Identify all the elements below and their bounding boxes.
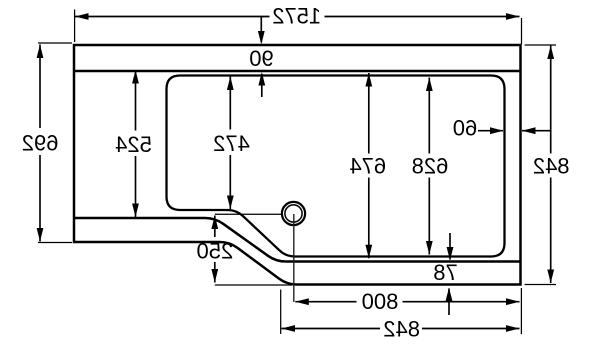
svg-text:692: 692: [22, 131, 59, 156]
arrowhead 524 top: [132, 70, 139, 84]
dimension lines: [40, 17, 551, 329]
arrowhead 628 bottom: [426, 241, 433, 255]
arrowhead 800 left: [295, 298, 309, 305]
svg-text:472: 472: [213, 131, 250, 156]
dim line 692: [39, 45, 41, 242]
arrowhead 628 top: [426, 78, 433, 92]
ext line 842 right top: [525, 44, 556, 46]
dim line 78 bottom leader: [448, 289, 450, 316]
ext line 692 bottom: [38, 242, 72, 244]
shower tray outer outline: [74, 45, 521, 285]
svg-text:674: 674: [349, 154, 386, 179]
dim line 842 bottom: [282, 328, 520, 330]
dim line 842 right: [550, 46, 552, 284]
svg-text:628: 628: [412, 154, 449, 179]
ext line right for 800 and 842 bottom: [520, 288, 522, 334]
arrowhead 60 pointing right: [490, 127, 504, 134]
arrowhead 78 up: [446, 288, 453, 302]
arrowhead 692 top: [37, 45, 44, 59]
dim line 78 top leader: [449, 233, 451, 260]
arrowhead 90 down: [258, 31, 265, 45]
ext line 250 top to drain: [215, 213, 283, 215]
dim line 90 bottom leader: [261, 74, 263, 97]
svg-text:250: 250: [197, 239, 234, 264]
top rim inner line: [74, 70, 521, 73]
svg-text:800: 800: [362, 289, 399, 314]
dim line 800: [295, 301, 519, 303]
arrowhead 1572 left: [75, 13, 89, 20]
arrowhead 78 down: [447, 247, 454, 261]
ext line 1572 left: [74, 10, 76, 43]
svg-text:1572: 1572: [272, 4, 321, 29]
svg-text:842: 842: [533, 154, 570, 179]
dim line 1572: [75, 16, 520, 18]
drain waste circle outer: [282, 202, 305, 225]
arrowhead 842 right bottom: [547, 270, 554, 284]
arrowhead 842 bottom left: [282, 325, 296, 332]
ext line 842 bottom left: [280, 290, 282, 335]
svg-text:524: 524: [115, 132, 152, 157]
dim line 472: [229, 77, 231, 210]
ext line 1572 right: [521, 18, 523, 44]
dim line 60 right leader: [522, 130, 550, 132]
arrowhead 90 up: [258, 72, 265, 86]
step rim inner line with diagonal to bottom rim top line: [74, 218, 521, 262]
drain waste circle inner: [285, 205, 302, 222]
arrowhead 250 top: [211, 216, 218, 230]
ext line 692 top: [38, 42, 72, 44]
arrowhead 674 top: [365, 73, 372, 87]
arrowhead 842 bottom right: [506, 325, 520, 332]
arrowhead 1572 right: [506, 13, 520, 20]
arrowhead 800 right: [506, 298, 520, 305]
dim line 524: [135, 71, 137, 217]
ext line 250 bottom: [215, 284, 292, 286]
svg-text:78: 78: [433, 260, 457, 285]
svg-text:60: 60: [453, 116, 477, 141]
arrowhead 60 pointing left: [522, 127, 536, 134]
dim line 90 top leader: [260, 17, 262, 43]
arrowhead 842 right top: [547, 46, 554, 60]
inner basin rounded outline: [167, 76, 505, 257]
arrowhead 692 bottom: [37, 228, 44, 242]
arrowhead 674 bottom: [365, 245, 372, 258]
drain centerline: [293, 214, 295, 302]
dim line 60 left leader: [478, 130, 503, 132]
ext line 842 right bottom: [525, 284, 556, 286]
arrowhead 524 bottom: [132, 204, 139, 218]
arrowhead 472 bottom: [227, 196, 234, 210]
dim line 250: [214, 216, 216, 238]
dim line 628: [428, 78, 430, 255]
arrowhead 250 bottom: [211, 269, 218, 283]
dim line 674: [368, 73, 370, 258]
arrowhead 472 top: [227, 77, 234, 91]
svg-text:90: 90: [249, 46, 273, 71]
svg-text:842: 842: [383, 317, 420, 342]
